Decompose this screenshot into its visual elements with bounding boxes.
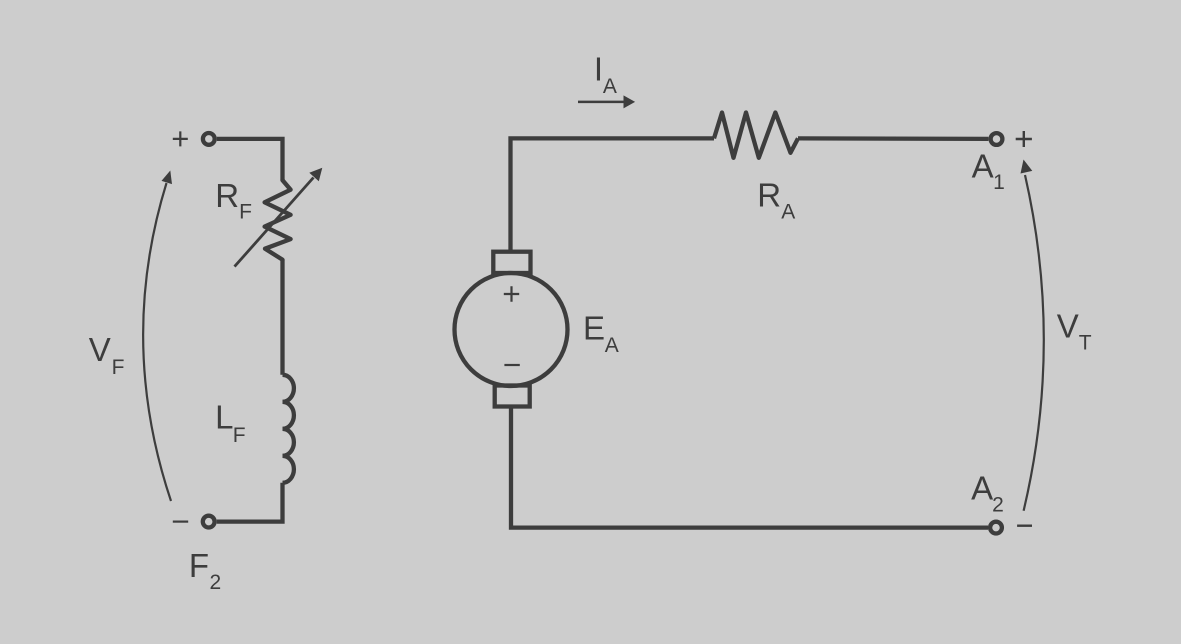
terminal A2 (990, 522, 1002, 534)
arrow through resistor RF (variable symbol) (235, 168, 323, 267)
motor armature EA (circle) (455, 273, 568, 386)
resistor RF (variable) (265, 180, 291, 260)
svg-text:R: R (757, 177, 781, 214)
label VF (89, 331, 125, 379)
svg-text:A: A (605, 334, 619, 357)
svg-text:L: L (215, 399, 233, 436)
plus sign at terminal A1 (1016, 131, 1032, 147)
svg-text:2: 2 (210, 571, 222, 594)
svg-text:T: T (1079, 331, 1092, 354)
terminal F1 (203, 133, 215, 145)
svg-text:F: F (112, 356, 125, 379)
svg-text:E: E (583, 310, 605, 347)
wire: inductor LF to terminal F2 (217, 483, 283, 522)
VT arrow (terminal voltage reference) (1021, 160, 1044, 511)
plus sign inside motor (504, 286, 519, 301)
label RF (215, 177, 252, 223)
resistor RA (714, 113, 798, 158)
motor brush (bottom) (495, 386, 530, 407)
minus sign at terminal A2 (1017, 525, 1032, 527)
svg-text:A: A (971, 470, 993, 507)
svg-text:I: I (594, 51, 603, 88)
wire: F1 to resistor RF (217, 139, 283, 180)
svg-text:A: A (603, 75, 617, 98)
svg-text:1: 1 (993, 171, 1005, 194)
svg-text:A: A (781, 200, 795, 223)
label RA (757, 177, 795, 224)
svg-text:A: A (972, 148, 994, 185)
IA current arrow (578, 95, 635, 108)
wire: motor to resistor RA (top-left corner) (511, 138, 715, 251)
wire: resistor RA to terminal A1 (798, 136, 988, 141)
label EA (583, 310, 619, 357)
svg-text:F: F (233, 424, 246, 447)
motor brush (top) (493, 252, 530, 273)
label IA (armature current) (594, 51, 617, 98)
svg-text:R: R (215, 177, 239, 214)
minus sign at terminal F2 (173, 520, 188, 522)
plus sign at field terminal F1 (173, 131, 188, 146)
wire: resistor RF to inductor LF (280, 260, 284, 375)
label LF (215, 399, 245, 447)
svg-text:F: F (239, 200, 252, 223)
svg-text:V: V (89, 331, 111, 368)
label A1 (972, 148, 1005, 194)
svg-text:F: F (189, 547, 209, 584)
wire: terminal A2 to motor (bottom) (511, 407, 988, 528)
terminal A1 (991, 133, 1003, 145)
label A2 (971, 470, 1004, 517)
svg-text:2: 2 (992, 494, 1004, 517)
VF arrow (field voltage reference) (143, 171, 172, 502)
minus sign inside motor (504, 364, 519, 366)
inductor LF (283, 375, 294, 483)
label VT (1057, 308, 1092, 355)
svg-text:V: V (1057, 308, 1079, 345)
label F2 (189, 547, 221, 594)
terminal F2 (203, 516, 215, 528)
